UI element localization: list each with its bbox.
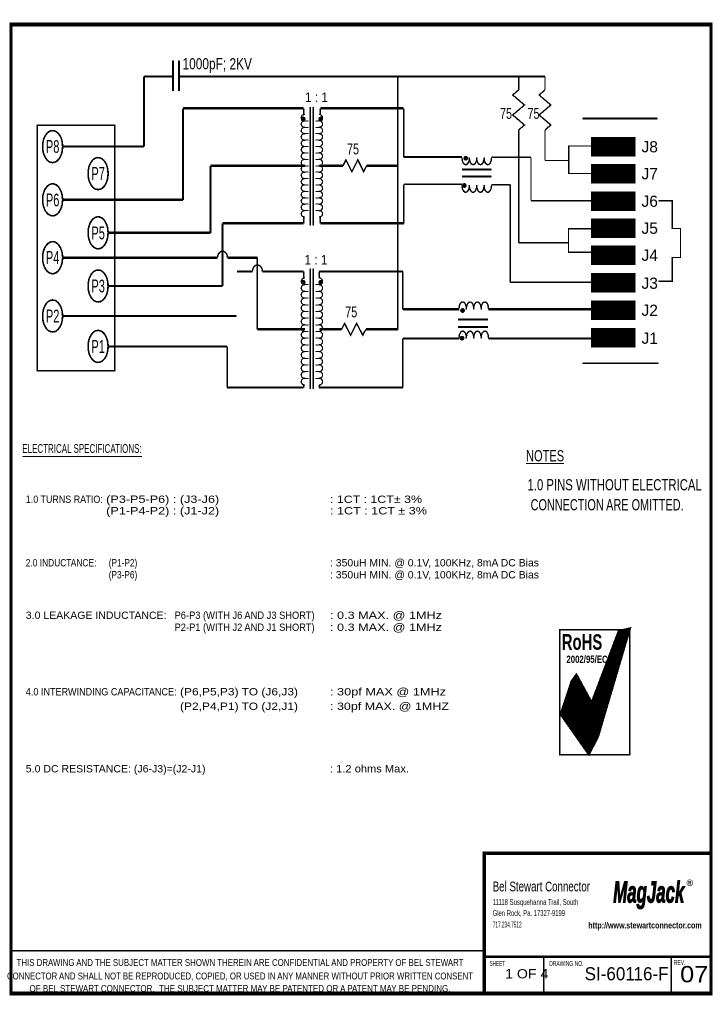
choke L1 top winding (462, 157, 492, 164)
contact J6 (591, 191, 636, 211)
choke L2 bottom winding (459, 331, 489, 338)
pin P2 (43, 300, 63, 332)
resistor R1 75 ohm (T1 center tap) (320, 165, 344, 167)
svg-text:P7: P7 (91, 164, 105, 184)
wire P3 to T1 primary bottom (108, 285, 222, 287)
pin P6 (43, 184, 63, 216)
pin P7 (88, 158, 108, 190)
transformer T1 secondary winding (319, 108, 321, 114)
svg-text:P4: P4 (46, 248, 60, 268)
svg-text:Glen Rock, Pa. 17327-9199: Glen Rock, Pa. 17327-9199 (493, 909, 565, 918)
svg-text:07: 07 (680, 961, 708, 988)
svg-text:1 : 1: 1 : 1 (305, 252, 328, 268)
svg-text:: 0.3 MAX. @ 1MHz: : 0.3 MAX. @ 1MHz (330, 610, 442, 622)
transformer T1 primary winding (303, 108, 305, 114)
svg-text:P2-P1 (WITH J2 AND J1 SHORT): P2-P1 (WITH J2 AND J1 SHORT) (175, 622, 315, 634)
svg-text:: 0.3 MAX. @ 1MHz: : 0.3 MAX. @ 1MHz (330, 622, 442, 634)
svg-text:J3: J3 (642, 274, 659, 293)
transformer T2 polarity dot secondary (318, 280, 323, 285)
choke L2 core (458, 319, 488, 321)
svg-text:1.0 TURNS RATIO:: 1.0 TURNS RATIO: (26, 494, 103, 506)
disclaimer box top line (11, 950, 485, 952)
transformer T1 polarity dot secondary (318, 117, 323, 122)
svg-text:http://www.stewartconnector.co: http://www.stewartconnector.com (588, 920, 702, 930)
svg-text:: 1CT : 1CT± 3%: : 1CT : 1CT± 3% (330, 494, 422, 506)
svg-text:MagJack: MagJack (613, 875, 685, 910)
svg-text:3.0 LEAKAGE INDUCTANCE:: 3.0 LEAKAGE INDUCTANCE: (26, 610, 167, 622)
wire P4 to T2 primary center tap (with crossover hump) (63, 257, 218, 259)
svg-text:(P6,P5,P3) TO (J6,J3): (P6,P5,P3) TO (J6,J3) (180, 687, 298, 699)
svg-text:2002/95/EC: 2002/95/EC (566, 654, 607, 666)
svg-text:: 350uH MIN. @ 0.1V, 100KHz, 8: : 350uH MIN. @ 0.1V, 100KHz, 8mA DC Bias (330, 570, 539, 582)
connector P-box outline (37, 125, 115, 370)
title block frame (483, 852, 712, 855)
svg-text:: 30pf MAX @ 1MHz: : 30pf MAX @ 1MHz (330, 687, 446, 699)
svg-text:J5: J5 (642, 219, 659, 238)
svg-text:(P3-P5-P6) : (J3-J6): (P3-P5-P6) : (J3-J6) (106, 494, 219, 506)
svg-text:: 1.2 ohms Max.: : 1.2 ohms Max. (330, 764, 409, 776)
bracket J5-J4 (to R3) (569, 229, 592, 252)
transformer T1 polarity dot primary (301, 117, 306, 122)
wire P5 to T1 primary center tap (108, 232, 210, 234)
contact J3 (591, 273, 636, 293)
contact J7 (591, 164, 636, 184)
svg-text:75: 75 (345, 305, 357, 322)
resistor R3 75 ohm vertical (518, 77, 520, 91)
contact J2 (591, 300, 636, 320)
wire T2 secondary top to choke L2 (319, 270, 403, 272)
wire stub to T2 primary top (with crossover hump) (237, 270, 252, 272)
wire P1 to T2 primary bottom (108, 345, 227, 347)
choke L1 bottom winding (462, 185, 492, 192)
long vertical net wire (cap to T2 center) (397, 77, 399, 330)
contact J8 (591, 137, 636, 157)
transformer T1 core (309, 107, 311, 226)
transformer T2 secondary winding (318, 272, 320, 279)
contact J4 (591, 245, 636, 265)
capacitor C1 1000pF 2KV plates (172, 60, 174, 91)
wire T2 secondary bottom to choke L2 (319, 386, 403, 388)
svg-text:75: 75 (528, 106, 540, 123)
svg-text:P8: P8 (46, 137, 60, 157)
contact J5 (591, 218, 636, 238)
wire choke L2 top to J2 (489, 308, 592, 310)
svg-text:Bel Stewart Connector: Bel Stewart Connector (493, 880, 590, 896)
pin P1 (88, 330, 108, 362)
svg-text:P2: P2 (46, 307, 60, 327)
svg-text:SHEET: SHEET (490, 961, 506, 968)
svg-text:J8: J8 (642, 138, 659, 157)
resistor R2 75 ohm (T2 center tap) (320, 328, 342, 330)
svg-text:P6: P6 (46, 190, 60, 210)
svg-text:(P1-P2): (P1-P2) (109, 558, 138, 570)
wire choke L1 bottom to J3 (492, 184, 511, 186)
svg-text:J1: J1 (642, 329, 659, 348)
svg-text:CONNECTION ARE OMITTED.: CONNECTION ARE OMITTED. (531, 495, 684, 514)
line below J1 (583, 362, 659, 364)
bracket J6-J3 right side (658, 201, 680, 282)
transformer T2 core (309, 269, 311, 390)
pin P5 (88, 217, 108, 249)
svg-text:THIS DRAWING AND THE SUBJECT M: THIS DRAWING AND THE SUBJECT MATTER SHOW… (17, 957, 464, 969)
svg-text:(P2,P4,P1) TO (J2,J1): (P2,P4,P1) TO (J2,J1) (180, 701, 298, 713)
svg-text:1 : 1: 1 : 1 (305, 89, 328, 105)
wire T1 secondary bottom to choke L1 (320, 222, 404, 224)
wire P2 stub (unterminated) (63, 315, 237, 317)
choke L1 core (462, 169, 491, 171)
svg-text:P3: P3 (91, 277, 105, 297)
svg-text:OF BEL STEWART CONNECTOR. THE: OF BEL STEWART CONNECTOR. THE SUBJECT MA… (30, 983, 451, 995)
wire P8 to capacitor node (63, 146, 144, 148)
svg-text:J7: J7 (642, 165, 659, 184)
wire choke L2 bottom to J1 (489, 337, 592, 339)
svg-text:: 30pf MAX. @ 1MHZ: : 30pf MAX. @ 1MHZ (330, 701, 449, 713)
svg-text:4.0 INTERWINDING CAPACITANCE:: 4.0 INTERWINDING CAPACITANCE: (26, 687, 177, 699)
pin P4 (43, 242, 63, 274)
svg-text:2.0 INDUCTANCE:: 2.0 INDUCTANCE: (26, 558, 97, 570)
pin P3 (88, 270, 108, 302)
choke L2 top winding (459, 302, 489, 309)
svg-text:75: 75 (500, 106, 512, 123)
transformer T2 polarity dot primary (301, 280, 306, 285)
svg-text:1.0 PINS WITHOUT ELECTRICAL: 1.0 PINS WITHOUT ELECTRICAL (528, 475, 702, 494)
bracket J8-J7 (to R4) (569, 146, 591, 174)
svg-text:5.0 DC RESISTANCE: (J6-J3)=(J2: 5.0 DC RESISTANCE: (J6-J3)=(J2-J1) (26, 764, 206, 776)
svg-text:11118 Susquehanna Trail, South: 11118 Susquehanna Trail, South (493, 898, 579, 907)
svg-text:P1: P1 (91, 337, 105, 357)
wire P6 to T1 primary top (63, 199, 183, 201)
RoHS checkmark (560, 627, 632, 757)
svg-text:(P3-P6): (P3-P6) (109, 570, 138, 582)
svg-text:RoHS: RoHS (562, 629, 603, 655)
svg-text:®: ® (687, 878, 694, 888)
pin P8 (43, 131, 63, 163)
svg-text:75: 75 (347, 142, 359, 159)
svg-text:J4: J4 (642, 246, 659, 265)
svg-text:ELECTRICAL SPECIFICATIONS:: ELECTRICAL SPECIFICATIONS: (22, 441, 141, 456)
svg-text:P5: P5 (91, 223, 105, 243)
RoHS logo box (560, 630, 630, 755)
contact J1 (591, 328, 636, 348)
wire capacitor line (top net) (144, 75, 173, 77)
svg-text:: 1CT : 1CT ± 3%: : 1CT : 1CT ± 3% (330, 506, 427, 518)
svg-text:SI-60116-F: SI-60116-F (585, 964, 669, 986)
svg-text:1000pF; 2KV: 1000pF; 2KV (183, 55, 253, 74)
svg-text:717.234.7512: 717.234.7512 (493, 920, 522, 929)
svg-text:CONNECTOR AND SHALL NOT BE REP: CONNECTOR AND SHALL NOT BE REPRODUCED, C… (7, 970, 473, 982)
resistor R4 75 ohm vertical (544, 77, 546, 91)
svg-text:J2: J2 (642, 301, 659, 320)
wire choke L1 top to J6 (492, 156, 532, 158)
svg-text:: 350uH MIN. @ 0.1V, 100KHz, 8: : 350uH MIN. @ 0.1V, 100KHz, 8mA DC Bias (330, 558, 539, 570)
line above J8 (583, 117, 658, 119)
svg-text:1 OF 4: 1 OF 4 (505, 966, 549, 981)
svg-text:P6-P3 (WITH J6 AND J3 SHORT): P6-P3 (WITH J6 AND J3 SHORT) (175, 610, 315, 622)
svg-text:J6: J6 (642, 192, 659, 211)
wire T1 secondary top to choke L1 (320, 107, 403, 109)
svg-text:DRAWING NO.: DRAWING NO. (549, 961, 583, 968)
svg-text:NOTES: NOTES (526, 446, 564, 465)
svg-text:(P1-P4-P2) : (J1-J2): (P1-P4-P2) : (J1-J2) (106, 506, 219, 518)
transformer T2 primary winding (303, 272, 305, 279)
